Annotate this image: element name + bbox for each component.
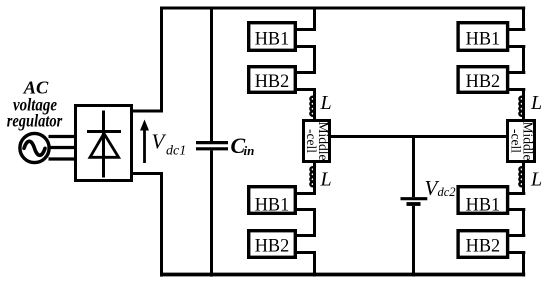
wire cap bus upper bbox=[210, 7, 213, 142]
HB1 lower-right box bbox=[458, 187, 508, 214]
label middle-cell right text bbox=[509, 122, 536, 161]
wire coil to lower-right HB1 bbox=[522, 187, 525, 194]
ac source SRC bbox=[20, 133, 49, 162]
label AC voltage regulator bbox=[7, 78, 63, 131]
wire lower-left connector bbox=[297, 194, 316, 277]
svg-text:in: in bbox=[244, 143, 255, 158]
svg-text:HB1: HB1 bbox=[466, 29, 501, 50]
HB1 upper-left box bbox=[249, 23, 296, 51]
diode symbol cathode bar bbox=[87, 130, 121, 133]
HB1 lower-left box bbox=[249, 187, 296, 214]
svg-text:HB2: HB2 bbox=[255, 236, 290, 257]
svg-text:HB1: HB1 bbox=[255, 195, 290, 216]
middle-cell right box bbox=[508, 121, 535, 162]
wire middle horizontal bbox=[331, 135, 507, 138]
HB2 lower-right box bbox=[458, 231, 508, 258]
wire middle-cell left bottom bbox=[313, 162, 316, 168]
svg-text:L: L bbox=[530, 92, 542, 114]
wire coil to lower HB1 bbox=[313, 187, 316, 194]
battery Vdc2 bbox=[401, 138, 428, 277]
svg-text:dc1: dc1 bbox=[166, 144, 186, 159]
middle-cell left box bbox=[304, 121, 330, 162]
capacitor Cin plates bbox=[196, 143, 228, 149]
diode symbol triangle bbox=[90, 134, 119, 158]
wire regulator output top bbox=[131, 110, 163, 113]
inductor L lower-right bbox=[519, 167, 523, 187]
svg-text:HB1: HB1 bbox=[466, 195, 501, 216]
svg-text:-cell: -cell bbox=[509, 129, 524, 153]
wire left bus lower segment bbox=[160, 174, 163, 277]
svg-text:L: L bbox=[320, 169, 332, 191]
inductor L upper-right bbox=[519, 97, 523, 117]
wire lower-right connector bbox=[509, 194, 526, 277]
svg-text:-cell: -cell bbox=[304, 129, 319, 153]
wire left bus upper segment bbox=[160, 7, 163, 112]
ac voltage regulator box U1 bbox=[76, 106, 132, 181]
arrow Vdc1 bbox=[140, 120, 149, 164]
wire upper-right connector bbox=[509, 7, 526, 97]
ac source sine wave bbox=[24, 141, 45, 155]
label Cin bbox=[231, 133, 255, 158]
svg-text:regulator: regulator bbox=[7, 111, 63, 131]
wire cap bus lower bbox=[210, 150, 213, 276]
svg-text:HB2: HB2 bbox=[255, 71, 290, 92]
svg-text:dc2: dc2 bbox=[438, 185, 456, 199]
svg-text:HB2: HB2 bbox=[466, 236, 501, 257]
svg-text:HB2: HB2 bbox=[466, 71, 501, 92]
svg-text:L: L bbox=[530, 169, 542, 191]
HB1 upper-right box bbox=[458, 23, 508, 51]
label middle-cell left text bbox=[304, 122, 331, 161]
HB2 upper-left box bbox=[249, 67, 296, 93]
wire middle-cell right bottom bbox=[522, 162, 525, 168]
wire upper-left connector bbox=[297, 7, 316, 97]
wire coil to middle-cell right top bbox=[522, 116, 525, 121]
wire phase line 3 bbox=[49, 157, 76, 160]
label Vdc1 bbox=[152, 130, 187, 159]
wire phase line 2 bbox=[49, 146, 76, 149]
svg-text:HB1: HB1 bbox=[255, 29, 290, 50]
wire top bus bbox=[160, 7, 525, 10]
label Vdc2 bbox=[425, 176, 456, 200]
wire regulator output bottom bbox=[131, 172, 163, 175]
HB2 upper-right box bbox=[458, 67, 508, 93]
svg-text:L: L bbox=[320, 92, 332, 114]
diode symbol vertical lead bbox=[102, 111, 105, 178]
wire bottom bus bbox=[160, 273, 525, 277]
wire phase line 1 bbox=[49, 135, 76, 138]
inductor L lower-left bbox=[310, 167, 314, 187]
HB2 lower-left box bbox=[249, 231, 296, 258]
wire coil to middle-cell left top bbox=[313, 116, 316, 121]
inductor L upper-left bbox=[310, 97, 314, 117]
svg-text:V: V bbox=[152, 130, 167, 154]
